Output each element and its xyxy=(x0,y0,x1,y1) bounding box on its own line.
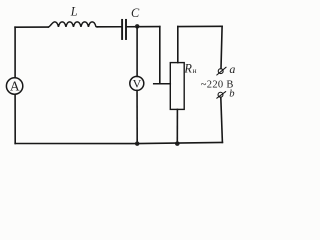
resistor top lead xyxy=(177,27,179,63)
inductor L coil xyxy=(48,22,97,27)
voltmeter bottom lead xyxy=(136,90,138,143)
svg-text:a: a xyxy=(229,62,235,76)
terminal b circle xyxy=(218,92,223,97)
tap bar to resistor side xyxy=(154,83,171,85)
wire left vertical lower (ammeter to bottom corner) xyxy=(14,95,16,144)
wire (node 1 to tap corner) xyxy=(137,26,160,28)
node 1 junction dot xyxy=(135,24,140,29)
ammeter A xyxy=(6,78,22,94)
wire top (left corner to inductor) xyxy=(15,26,48,28)
wire top right segment xyxy=(178,25,222,27)
node 3 junction dot (resistor / bottom wire) xyxy=(175,141,180,146)
resistor Rn box xyxy=(170,63,184,110)
terminal a slash xyxy=(217,67,226,75)
wire (capacitor to node 1) xyxy=(127,26,137,28)
terminal b slash xyxy=(217,92,226,99)
wire bottom horizontal xyxy=(15,142,222,143)
node 2 junction dot (voltmeter / bottom wire) xyxy=(135,141,140,146)
svg-text:b: b xyxy=(229,89,234,100)
wire (inductor to capacitor) xyxy=(97,26,121,28)
wire right vertical (terminal b to bottom corner) xyxy=(221,97,223,142)
capacitor C plate left xyxy=(121,20,123,39)
tap stem vertical xyxy=(159,27,161,84)
svg-text:C: C xyxy=(131,6,140,20)
wire right vertical (corner to terminal a) xyxy=(221,26,222,68)
svg-text:н: н xyxy=(193,66,197,75)
svg-text:L: L xyxy=(70,5,78,19)
voltmeter V xyxy=(130,76,144,90)
svg-text:V: V xyxy=(133,77,142,91)
svg-text:A: A xyxy=(10,78,20,93)
capacitor C plate right xyxy=(125,20,127,39)
terminal a circle xyxy=(218,69,223,74)
voltmeter top lead xyxy=(136,27,138,77)
wire left vertical upper (corner to ammeter) xyxy=(14,27,16,77)
svg-text:R: R xyxy=(183,62,192,76)
resistor bottom lead xyxy=(176,109,178,143)
